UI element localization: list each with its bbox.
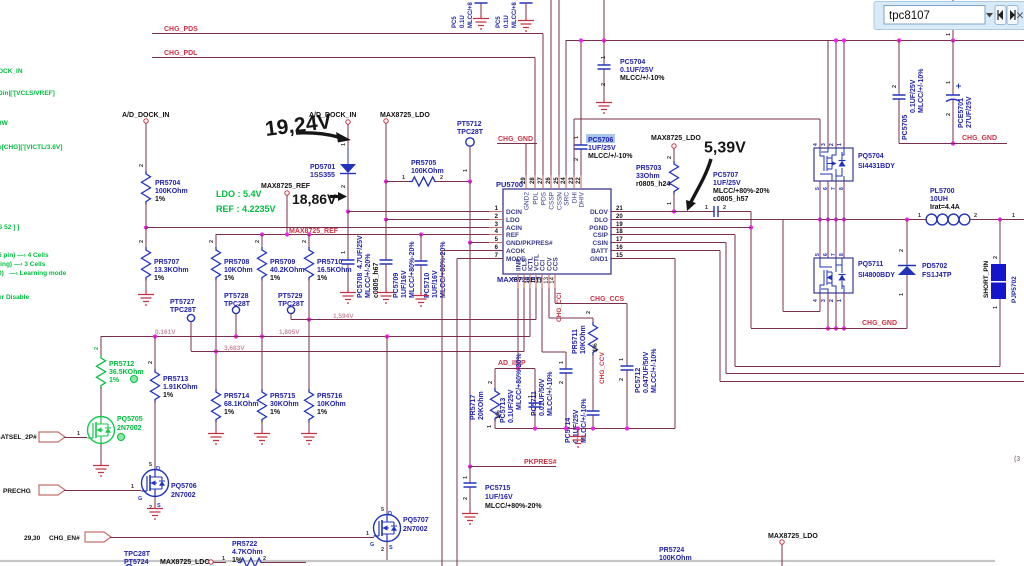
svg-text:1: 1 [837, 299, 843, 302]
wire AD_IINP top run [495, 368, 535, 370]
junction CLS/PR5714 [214, 349, 218, 353]
annotation arrow 19,24V [296, 133, 338, 137]
svg-text:SI4800BDY: SI4800BDY [858, 272, 895, 279]
junction PKPRES/PR5705 [468, 179, 472, 183]
ground under PQ5705 [93, 462, 109, 476]
wire MODE drop [456, 259, 458, 566]
wire VCTL to PR5716 [308, 319, 310, 389]
capacitor PC5706 [575, 145, 588, 149]
wire pin25 CSSN column [558, 0, 560, 189]
svg-text:PT5727: PT5727 [170, 299, 195, 306]
wire ICTL to PR5713 [154, 336, 156, 369]
svg-text:PC5: PC5 [452, 16, 458, 28]
svg-text:1%: 1% [317, 409, 328, 416]
wire PT5712 drop [469, 146, 471, 181]
ground under PR5707 [138, 291, 154, 305]
junction ICTL/PQ5707 [385, 334, 389, 338]
wire DHI gate drop to PQ5704 [819, 119, 821, 148]
wire DLO gate drop [782, 220, 784, 312]
svg-text:CHG_PDL: CHG_PDL [164, 50, 198, 57]
svg-text:1: 1 [1012, 213, 1015, 219]
pin 12 stub [541, 274, 543, 288]
wire ACIN rail [146, 227, 503, 229]
junction ICTL/PR5713 [153, 334, 157, 338]
svg-text:PC5713: PC5713 [500, 398, 507, 423]
svg-text:1: 1 [993, 306, 999, 309]
wire CLS riser pin9 [523, 274, 525, 352]
junction DCIN [346, 209, 350, 213]
svg-text:2: 2 [619, 378, 625, 381]
wire PR5717 bottom [494, 420, 496, 429]
wire PR5707 to ground [145, 279, 147, 291]
wire pin22 DHIV column upper [580, 40, 582, 145]
pin 15 stub [611, 258, 625, 260]
svg-text:REF: REF [506, 232, 519, 239]
port circle MAX8725_LDO bottom left [209, 560, 213, 564]
svg-text:1: 1 [574, 136, 580, 139]
pin 17 stub [611, 242, 625, 244]
diode PD5702 [898, 265, 916, 267]
wire PC5712 bottom [626, 370, 628, 429]
wire PKPRES col mid [469, 181, 471, 242]
svg-text:MLCC/+80%-20%: MLCC/+80%-20% [409, 241, 416, 298]
wire PR5722 right [262, 562, 306, 564]
svg-text:27: 27 [538, 177, 544, 184]
wire PQ5711 top col d [843, 220, 845, 259]
wire PR5717 branch top [494, 369, 496, 389]
junction bus/PC5705 [897, 38, 901, 42]
svg-text:2: 2 [263, 556, 266, 562]
wire CSIP line [611, 234, 735, 236]
svg-text:2: 2 [148, 361, 154, 364]
svg-text:PC5712: PC5712 [635, 368, 642, 393]
svg-text:1: 1 [463, 476, 469, 479]
svg-text:13.3KOhm: 13.3KOhm [154, 267, 189, 274]
wire PQ5704 pin col c upper [843, 40, 845, 148]
pin 5 stub [489, 242, 503, 244]
svg-text:PC5711: PC5711 [531, 391, 538, 416]
wire DLO-SRC line [611, 219, 926, 221]
svg-text:CHG_CCV: CHG_CCV [599, 352, 606, 384]
wire PQ5711 top col b [827, 220, 829, 259]
port circle A/D_DOCK_IN left [144, 119, 148, 123]
svg-text:0.1U: 0.1U [504, 15, 510, 28]
port circle MAX8725_LDO right [672, 144, 676, 148]
wire pin5 GND/PKPRES line [470, 242, 503, 244]
capacitor PC5706 highlight [586, 134, 615, 143]
transistor PQ5704 internals [820, 148, 844, 181]
svg-text:5,39V: 5,39V [704, 140, 746, 157]
wire CHG_PDS horizontal [152, 33, 543, 35]
svg-text:PQ5711: PQ5711 [858, 261, 883, 268]
wire ICTL rail [101, 336, 530, 338]
transistor Q PQ5704 box [814, 148, 853, 181]
svg-text:0.047UF/50V: 0.047UF/50V [643, 351, 650, 393]
capacitor PC5710 [415, 261, 428, 265]
svg-text:G: G [370, 542, 374, 548]
wire pin24 SRC column [565, 40, 567, 189]
wire PR5713 to PQ5706 [154, 401, 156, 470]
junction CHG_GND right [951, 141, 955, 145]
resistor PR5709 [258, 247, 267, 281]
svg-text:MAX8725_REF: MAX8725_REF [289, 228, 339, 235]
wire PQ5711 top col a [819, 220, 821, 259]
wire PR5704 to ACIN [145, 203, 147, 227]
wire PCE5701 riser [952, 0, 954, 40]
svg-text:Din|['[VCLS/VREF]: Din|['[VCLS/VREF] [0, 90, 55, 97]
svg-text:REF : 4.2235V: REF : 4.2235V [216, 204, 276, 214]
wire DCIN line [348, 211, 503, 213]
pin 13 stub [548, 274, 550, 288]
svg-text:2: 2 [488, 381, 494, 384]
svg-text:CSIN: CSIN [592, 240, 608, 247]
transistor PQ5706 [142, 470, 169, 497]
svg-text:CHG_GND: CHG_GND [498, 136, 533, 143]
wire CSIP drop [734, 235, 736, 367]
pin 11 stub [535, 274, 537, 288]
wire PRECHG to gate [64, 490, 141, 492]
svg-text:PD5702: PD5702 [922, 263, 947, 270]
svg-text:c0805_h57: c0805_h57 [713, 196, 749, 203]
port circle MAX8725_LDO top [384, 119, 388, 123]
svg-text:1%: 1% [593, 343, 599, 352]
svg-text:10KOhm: 10KOhm [224, 267, 253, 274]
svg-text:e[CHG]['[VICTL/3.6V]: e[CHG]['[VICTL/3.6V] [0, 144, 62, 151]
junction SRC d [842, 217, 846, 221]
wire ACOK line [442, 250, 503, 252]
pin 23 stub [573, 175, 575, 189]
svg-text:PDS: PDS [541, 191, 548, 205]
svg-text:2: 2 [586, 311, 592, 314]
svg-text:MLCC/+/-10%: MLCC/+/-10% [620, 75, 665, 82]
wire PR5711 to PC5714 [592, 354, 594, 411]
svg-text:PR5708: PR5708 [224, 259, 249, 266]
svg-text:5 pin) —› 4 Cells: 5 pin) —› 4 Cells [0, 252, 49, 259]
resistor PR5712 [97, 355, 106, 389]
wire BATSEL to gate [64, 437, 87, 439]
svg-text:PR5714: PR5714 [224, 393, 249, 400]
ground under PR5715 [254, 430, 270, 444]
svg-text:SI4431BDY: SI4431BDY [858, 163, 895, 170]
wire CCS jog [555, 303, 627, 305]
junction return PC5712 [625, 426, 629, 430]
capacitor PC5711 [560, 369, 573, 373]
capacitor PC5704 bottom wire [603, 69, 605, 99]
svg-text:1%: 1% [270, 409, 281, 416]
svg-text:1%: 1% [163, 392, 174, 399]
wire BATT drop [719, 251, 721, 382]
wire PC5705 bottom [898, 99, 900, 144]
svg-text:2: 2 [601, 83, 607, 86]
svg-text:1: 1 [222, 556, 225, 562]
svg-text:PL5700: PL5700 [930, 188, 955, 195]
svg-text:ACOK: ACOK [506, 248, 525, 255]
svg-text:1%: 1% [224, 275, 235, 282]
toolbar next button [1007, 6, 1018, 25]
svg-text:OCK_IN: OCK_IN [0, 68, 23, 75]
svg-text:2: 2 [302, 240, 308, 243]
svg-text:CHG_GND: CHG_GND [862, 320, 897, 327]
testpoint PT5728 [232, 306, 239, 313]
svg-text:MAX8725_LDO: MAX8725_LDO [651, 135, 701, 142]
wire PC5710 to ground [420, 265, 422, 292]
junction REF/PC5710 [419, 232, 423, 236]
junction gnd b [834, 326, 838, 330]
svg-text:CHG_EN#: CHG_EN# [49, 535, 80, 542]
capacitor PC5704 top wire [603, 40, 605, 65]
wire CCI jog [542, 351, 566, 353]
wire ACIN to PR5707 [145, 227, 147, 247]
wire PR5710 to VCTL rail [308, 279, 310, 319]
wire PC5713 bottom [534, 407, 536, 429]
svg-text:1%: 1% [270, 275, 281, 282]
svg-text:10KOhm: 10KOhm [580, 325, 587, 354]
svg-text:2: 2 [723, 205, 726, 211]
junction PKPRES label tee [468, 464, 472, 468]
wire SRC top bus y=40 [566, 40, 1024, 42]
wire LDO line to chip [386, 219, 503, 221]
junction SRC shortpin [998, 217, 1002, 221]
svg-text:CSSP: CSSP [549, 192, 556, 210]
svg-text:PJP5702: PJP5702 [1011, 276, 1018, 303]
ground under PQ5706 [147, 505, 163, 519]
wire PQ5704 bottom col a [819, 181, 821, 220]
wire DCIN to PC5708 [347, 211, 349, 260]
capacitor PC5712 [621, 366, 634, 370]
svg-text:100KOhm: 100KOhm [411, 168, 444, 175]
wire VCTL rail [309, 319, 536, 321]
junction return PC5713 [533, 426, 537, 430]
wire SRC line right of coil [970, 219, 1024, 221]
pin 21 stub [611, 211, 625, 213]
wire PQ5707 drain riser [386, 336, 388, 515]
svg-text:PR5704: PR5704 [155, 180, 180, 187]
svg-text:0.1UF/25V: 0.1UF/25V [910, 79, 917, 113]
svg-text:1: 1 [601, 56, 607, 59]
wire PQ5711 top col c [835, 220, 837, 259]
junction gnd a [826, 326, 830, 330]
svg-text:PR5709: PR5709 [270, 259, 295, 266]
svg-text:3W: 3W [0, 120, 9, 127]
svg-text:PC5707: PC5707 [713, 172, 738, 179]
wire return gnd stub [577, 429, 579, 434]
svg-text:SHORT_PIN: SHORT_PIN [983, 260, 990, 298]
wire PGND line [611, 227, 751, 229]
svg-text:CHG_PDS: CHG_PDS [164, 26, 198, 33]
svg-text:0.1UF/25V: 0.1UF/25V [573, 409, 580, 443]
wire PR5712 to PQ5705 [100, 387, 102, 416]
wire LDO col to PC5709 [385, 219, 387, 260]
svg-text:1: 1 [77, 431, 80, 437]
svg-text:PC5710: PC5710 [424, 273, 431, 298]
capacitor PC5715 [464, 483, 477, 487]
pin 22 stub [580, 175, 582, 189]
svg-text:MLCC/+/-10%: MLCC/+/-10% [547, 371, 554, 416]
wire PD5702 top [906, 220, 908, 267]
testpoint PT5712 [466, 138, 474, 146]
wire ACOK drop [441, 251, 443, 566]
svg-text:CHG_GND: CHG_GND [962, 135, 997, 142]
svg-text:1,594V: 1,594V [333, 313, 354, 320]
port BATSEL_2P# [39, 432, 65, 442]
annotation arrow 18,86V [330, 195, 340, 198]
junction SRC/PC5704 [602, 38, 606, 42]
svg-text:PR5722: PR5722 [232, 541, 257, 548]
pin 10 stub [529, 274, 531, 288]
svg-text:33Ohm: 33Ohm [636, 173, 660, 180]
svg-text:5: 5 [149, 462, 152, 468]
resistor PR5711 [589, 322, 598, 356]
connector PJ5702 pads [991, 264, 1006, 281]
wire BATT bottom run [720, 381, 1024, 383]
transistor PQ5711 internals [820, 258, 844, 293]
svg-text:GND2: GND2 [524, 192, 531, 210]
resistor PR5708 [212, 247, 221, 281]
pin 20 stub [611, 219, 625, 221]
wire CHG_GND right run [899, 143, 1007, 145]
svg-text:3,683V: 3,683V [224, 345, 245, 352]
capacitor PCE5701 [946, 95, 960, 102]
svg-text:PT5728: PT5728 [224, 293, 249, 300]
ground under PC5704 [596, 99, 612, 113]
svg-text:CSIP: CSIP [593, 232, 609, 239]
svg-text:2: 2 [892, 85, 898, 88]
pin 19 stub [611, 227, 625, 229]
wire CHG_PDL horizontal [152, 57, 535, 59]
svg-text:PQ5706: PQ5706 [171, 483, 197, 490]
wire pin8 IINP drop [517, 288, 519, 368]
wire CHG_GND run [751, 328, 907, 330]
wire PQ5704 pin col a upper [827, 40, 829, 148]
svg-text:PCE5701: PCE5701 [958, 98, 965, 128]
wire PQ5707 source [386, 542, 388, 560]
svg-text:PR5705: PR5705 [411, 160, 436, 167]
junction gnd c [842, 326, 846, 330]
svg-text:2: 2 [946, 113, 952, 116]
port PRECHG [39, 485, 65, 495]
wire BATT line [611, 250, 720, 252]
svg-text:8: 8 [839, 253, 845, 256]
svg-text:12: 12 [537, 276, 543, 283]
wire PR5710 top [308, 234, 310, 247]
wire pin13 CCV drop [548, 288, 550, 318]
resistor PR5713 [151, 369, 160, 403]
wire VCTL riser pin11 [535, 274, 537, 320]
wire riser above PC5704 [603, 0, 605, 40]
svg-text:1: 1 [131, 484, 134, 490]
transistor Q PQ5711 box [814, 258, 853, 293]
wire MODE line [457, 258, 503, 260]
svg-text:1%: 1% [109, 377, 120, 384]
svg-text:3: 3 [821, 299, 827, 302]
wire CHG_EN to PQ5707 gate [110, 537, 374, 539]
svg-text:1: 1 [487, 425, 493, 428]
wire PKPRES to PC5715 [469, 466, 471, 483]
wire CSIN drop [725, 243, 727, 374]
svg-text:1%: 1% [317, 275, 328, 282]
junction return gnd [576, 426, 580, 430]
wire PC5715 to ground [469, 487, 471, 510]
svg-text:0.1UF/25V: 0.1UF/25V [620, 67, 654, 74]
wire PKPRES col lower [469, 242, 471, 466]
junction ICTL/PT5728 [234, 334, 238, 338]
wire gate run to PQ5711 [783, 311, 820, 313]
wire DLOV-PGND drop [750, 212, 752, 329]
svg-text:MAX8725_LDO: MAX8725_LDO [768, 533, 818, 540]
wire PKPRES label line [470, 466, 556, 468]
wire DLOV line left [611, 211, 714, 213]
svg-text:1UF/25V: 1UF/25V [588, 145, 616, 152]
svg-text:r0805_h24: r0805_h24 [636, 181, 670, 188]
svg-text:16.5KOhm: 16.5KOhm [317, 267, 352, 274]
capacitor (cut) right wire [525, 3, 527, 17]
wire bottom return line [495, 428, 675, 430]
wire PC5713 branch [534, 369, 536, 404]
svg-text:20KOhm: 20KOhm [478, 391, 485, 420]
wire pin26 CSSP column [550, 0, 552, 189]
svg-text:2: 2 [993, 256, 999, 259]
svg-text:LDO : 5.4V: LDO : 5.4V [216, 189, 262, 199]
wire PR5709 top [261, 234, 263, 247]
wire PQ5704 bottom col d [843, 181, 845, 220]
svg-text:PC5705: PC5705 [902, 115, 909, 140]
marker PR5712 highlight [131, 376, 138, 383]
svg-text:1: 1 [402, 175, 405, 181]
ground under PC5710 [413, 292, 429, 306]
diode PD5701 [340, 164, 356, 173]
svg-text:1: 1 [463, 169, 469, 172]
wire PQ5711 pin2 drop [835, 293, 837, 328]
wire pin22 DHIV column lower [580, 150, 582, 190]
junction bus/PQ5704 c [842, 38, 846, 42]
junction bus/PCE5701 [951, 38, 955, 42]
svg-text:2: 2 [209, 240, 215, 243]
junction SRC a [818, 217, 822, 221]
pin 29 stub [525, 175, 527, 189]
svg-text:25: 25 [554, 177, 560, 184]
svg-text:MLCC/+/-10%: MLCC/+/-10% [651, 348, 658, 393]
svg-text:TPC28T: TPC28T [170, 307, 197, 314]
svg-text:CSSN: CSSN [557, 192, 564, 210]
wire LDO col upper [385, 123, 387, 181]
svg-text:CHG_CCS: CHG_CCS [590, 296, 625, 303]
svg-text:GND1: GND1 [590, 256, 608, 263]
svg-text:10UH: 10UH [930, 196, 948, 203]
wire PR5711 top stub [592, 318, 594, 322]
svg-text:PR5711: PR5711 [572, 329, 579, 354]
wire shortpin bottom [999, 299, 1001, 367]
junction ACIN [144, 225, 148, 229]
svg-text:0) —› Learning mode: 0) —› Learning mode [0, 270, 67, 277]
wire shortpin top [999, 220, 1001, 265]
pin 28 stub [534, 175, 536, 189]
pin 27 stub [542, 175, 544, 189]
svg-text:BATT: BATT [591, 248, 608, 255]
svg-text:1: 1 [341, 143, 347, 146]
transistor PQ5707 [374, 515, 401, 542]
svg-text:PU5700: PU5700 [496, 180, 523, 189]
svg-text:PR5715: PR5715 [270, 393, 295, 400]
svg-text:BATSEL_2P#: BATSEL_2P# [0, 434, 37, 441]
svg-text:CCI: CCI [540, 260, 547, 271]
junction SRC b [826, 217, 830, 221]
junction DLOV/PR5703 [672, 209, 676, 213]
resistor PR5710 [305, 247, 314, 281]
junction ICTL/PR5715 [260, 334, 264, 338]
svg-text:2: 2 [381, 547, 384, 553]
svg-text:1UF/16V: 1UF/16V [401, 270, 408, 298]
svg-text:2: 2 [463, 497, 469, 500]
